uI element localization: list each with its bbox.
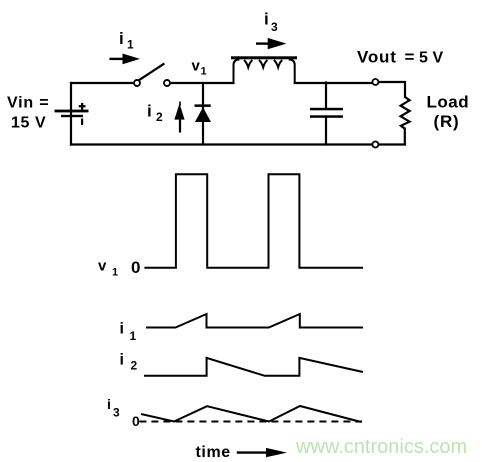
svg-text:15 V: 15 V	[11, 114, 46, 131]
svg-text:i: i	[119, 29, 124, 48]
svg-text:V: V	[433, 50, 444, 67]
svg-text:1: 1	[127, 38, 134, 52]
svg-text:2: 2	[131, 359, 138, 373]
svg-text:i: i	[120, 321, 124, 338]
svg-text:v: v	[192, 58, 201, 75]
svg-text:i: i	[264, 10, 269, 29]
svg-text:i: i	[120, 352, 124, 369]
svg-text:Vout: Vout	[357, 48, 397, 67]
svg-text:2: 2	[156, 110, 163, 124]
svg-text:www.cntronics.com: www.cntronics.com	[295, 436, 467, 458]
svg-text:0: 0	[131, 258, 140, 277]
svg-text:0: 0	[132, 413, 140, 429]
svg-text:1: 1	[130, 329, 137, 343]
svg-text:(R): (R)	[434, 112, 460, 131]
svg-text:i: i	[147, 102, 152, 121]
svg-text:Load: Load	[427, 93, 470, 112]
svg-text:time: time	[196, 444, 231, 461]
svg-text:3: 3	[271, 20, 278, 34]
svg-text:5: 5	[419, 50, 428, 67]
svg-text:=: =	[405, 48, 415, 67]
svg-text:v: v	[98, 258, 107, 275]
svg-text:3: 3	[113, 405, 120, 419]
svg-text:Vin =: Vin =	[7, 95, 49, 112]
svg-text:1: 1	[201, 66, 207, 78]
svg-text:1: 1	[112, 267, 118, 279]
svg-text:i: i	[107, 396, 111, 412]
